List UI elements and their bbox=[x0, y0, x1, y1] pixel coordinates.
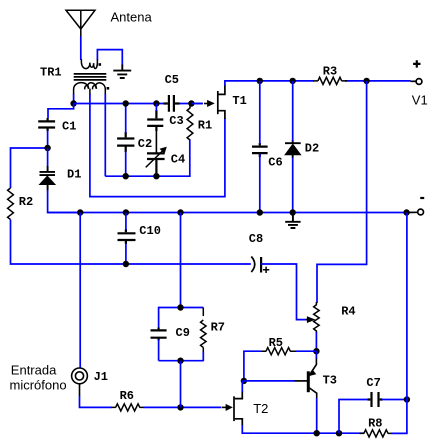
resistor R8 bbox=[360, 430, 393, 437]
transistor T2 (FET) bbox=[234, 391, 242, 426]
capacitor C7 bbox=[368, 392, 383, 407]
wire rail3 (ground rail) bbox=[48, 212, 407, 214]
wire TR1 tap1 down to T1 source line bbox=[90, 94, 225, 197]
junction dot rail2/C4 bbox=[153, 173, 159, 179]
capacitor C3 bbox=[147, 110, 163, 131]
TR1 polarity dot primary bbox=[99, 63, 102, 66]
T1 gate arrow bbox=[204, 101, 214, 107]
wire C9R7 branch (rail3 down to combo top) bbox=[180, 213, 182, 308]
svg-text:T3: T3 bbox=[323, 374, 337, 388]
svg-text:C10: C10 bbox=[139, 224, 161, 238]
svg-text:V1: V1 bbox=[412, 92, 428, 107]
wire C7 left leg bbox=[339, 400, 369, 434]
resistor R7 bbox=[201, 308, 207, 353]
junction dot rail1/C3 bbox=[153, 100, 159, 106]
junction dot rail3/D2/ground bbox=[290, 209, 296, 215]
junction dot rail3/C9R7 branch bbox=[177, 209, 183, 215]
wire C9R7 combo bottom rail bbox=[159, 360, 204, 362]
junction dot rail1 left / C1 branch bbox=[70, 100, 76, 106]
svg-text:R7: R7 bbox=[211, 320, 225, 334]
wire C2 top to rail1 bbox=[125, 104, 127, 134]
wire T1 gate bbox=[191, 103, 203, 105]
wire antenna to TR1 primary bbox=[80, 37, 82, 61]
wire TR1 secondary right lead down to rail2 bbox=[104, 94, 106, 176]
svg-text:R5: R5 bbox=[269, 336, 283, 350]
junction dot V+ rail / D2 bbox=[290, 78, 296, 84]
wire TR1 primary right to ground bbox=[97, 50, 122, 66]
ground (middle) bbox=[285, 213, 300, 229]
svg-text:C8: C8 bbox=[249, 232, 263, 246]
svg-text:D1: D1 bbox=[67, 167, 81, 181]
wire rail1 (tuned circuit top) bbox=[74, 103, 202, 105]
wire C7 right to right rail bbox=[382, 399, 407, 401]
potentiometer R4 bbox=[314, 302, 320, 333]
terminal - circle bbox=[407, 209, 424, 215]
junction dot rail2/C2 bbox=[123, 173, 129, 179]
TR1 polarity dot secondary bbox=[107, 87, 110, 90]
T2 gate arrow bbox=[222, 405, 232, 411]
svg-text:J1: J1 bbox=[94, 370, 108, 384]
svg-text:C7: C7 bbox=[366, 376, 380, 390]
svg-text:TR1: TR1 bbox=[40, 66, 62, 80]
diode D2 bbox=[285, 140, 301, 158]
wire C3 top to rail1 bbox=[155, 104, 157, 112]
svg-text:C1: C1 bbox=[62, 119, 76, 133]
wire C2 bottom to rail2 bbox=[125, 152, 127, 177]
wire rail1 step to C1 bbox=[48, 104, 74, 119]
junction dot R4/R5/T3 emitter bbox=[313, 348, 319, 354]
junction dot rail4/C10 bbox=[123, 261, 129, 267]
wire J1 bottom to R6 bbox=[80, 396, 113, 407]
plus sign bbox=[413, 60, 420, 67]
capacitor C6 bbox=[252, 143, 268, 157]
junction dot bottom rail/T3 bbox=[314, 430, 320, 436]
R4 wiper arrow bbox=[306, 317, 315, 323]
minus sign bbox=[420, 197, 424, 199]
svg-text:C6: C6 bbox=[268, 156, 282, 170]
capacitor C4 (variable) bbox=[146, 147, 167, 175]
junction dot mic line / C9R7 bbox=[177, 404, 183, 410]
junction dot combo bottom bbox=[177, 358, 183, 364]
svg-text:R6: R6 bbox=[120, 389, 134, 403]
wire C9R7 combo top rail bbox=[159, 307, 204, 309]
wire T2 drain up to node bbox=[242, 381, 244, 392]
wire C6 top bbox=[259, 81, 261, 144]
junction dot C7/right rail bbox=[404, 396, 410, 402]
wire rail2 (tuned circuit bottom) bbox=[105, 140, 190, 177]
svg-text:C2: C2 bbox=[138, 137, 152, 151]
svg-text:C9: C9 bbox=[176, 326, 190, 340]
wire D1 bottom to rail3 bbox=[48, 190, 81, 213]
wire C8 right to R4 wiper bbox=[261, 264, 307, 320]
junction dot rail3/J1 branch bbox=[77, 209, 83, 215]
wire T1 drain up to V+ rail bbox=[225, 81, 411, 86]
transformer TR1 bbox=[74, 59, 107, 94]
junction dot rail1/C2 bbox=[123, 100, 129, 106]
transistor T3 (PNP) bbox=[295, 358, 317, 399]
svg-text:R2: R2 bbox=[19, 195, 33, 209]
wire T3 collector down to bottom rail bbox=[316, 398, 318, 433]
terminal + circle bbox=[411, 79, 422, 85]
wire R7 bottom stub bbox=[202, 352, 204, 362]
junction dot rail3/C6 bbox=[257, 209, 263, 215]
svg-text:T2: T2 bbox=[253, 401, 268, 416]
svg-text:C3: C3 bbox=[169, 114, 183, 128]
svg-text:R4: R4 bbox=[341, 304, 355, 318]
wire R4 bottom to node R5/T3 bbox=[315, 332, 317, 351]
wire D2 top bbox=[292, 81, 294, 141]
wire C9 left leg bottom bbox=[158, 340, 160, 361]
connector J1 (microphone jack) bbox=[72, 368, 88, 397]
svg-text:R1: R1 bbox=[198, 119, 212, 133]
antenna bbox=[66, 10, 95, 37]
junction dot T2 drain/R5/T3 base bbox=[241, 378, 247, 384]
svg-text:micrófono: micrófono bbox=[10, 378, 67, 393]
svg-text:C4: C4 bbox=[171, 153, 185, 167]
wire C1 bottom to node D1 bbox=[47, 131, 49, 149]
wire C3 bottom to C4 top bbox=[155, 127, 157, 154]
capacitor C5 bbox=[164, 95, 180, 112]
resistor R1 bbox=[187, 104, 193, 141]
resistor R2 bbox=[8, 188, 14, 220]
capacitor C9 bbox=[151, 328, 167, 341]
junction dot bottom rail/C7 left bbox=[336, 430, 342, 436]
svg-text:R3: R3 bbox=[323, 65, 337, 79]
wire D2 bottom to rail3 bbox=[292, 158, 294, 213]
wire T3 base bbox=[244, 380, 295, 382]
wire node D1 left to R2 bbox=[11, 148, 48, 188]
svg-text:Antena: Antena bbox=[111, 10, 153, 25]
junction dot V+ rail / R4 feed bbox=[363, 78, 369, 84]
svg-text:T1: T1 bbox=[232, 94, 246, 108]
ground (top, antenna) bbox=[113, 65, 131, 79]
resistor R3 (break in rail) bbox=[314, 76, 345, 86]
wire TR1 secondary left lead to rail1 bbox=[73, 94, 75, 104]
junction dot rail3 right end bbox=[403, 209, 409, 215]
svg-text:Entrada: Entrada bbox=[11, 362, 57, 377]
svg-text:C5: C5 bbox=[165, 73, 179, 87]
wire V+ feed down to R4 top bbox=[317, 81, 367, 303]
transistor T1 (FET) bbox=[218, 85, 225, 119]
capacitor C10 bbox=[118, 229, 136, 244]
junction dot C1/D1 node bbox=[44, 145, 50, 151]
wire T3 emitter up to node bbox=[315, 351, 317, 358]
wire R6 right to T2 gate bbox=[144, 406, 222, 408]
wire R8 right up right rail to minus bbox=[392, 213, 407, 434]
wire C9 left leg top bbox=[158, 307, 160, 329]
junction dot V+ rail / C6 bbox=[257, 78, 263, 84]
junction dot rail1/R1/T1 gate bbox=[188, 100, 194, 106]
svg-text:D2: D2 bbox=[305, 141, 319, 155]
wire C6 bottom to rail3 bbox=[259, 154, 261, 213]
resistor R6 bbox=[112, 404, 145, 411]
wire combo bottom to mic line bbox=[180, 361, 182, 408]
wire T2 source down to bottom rail bbox=[242, 425, 364, 433]
junction dot combo top bbox=[177, 304, 183, 310]
svg-text:R8: R8 bbox=[368, 417, 382, 431]
resistor R5 bbox=[261, 348, 297, 355]
wire J1 branch down from rail3 bbox=[79, 213, 81, 369]
wire R5 right to node bbox=[296, 350, 317, 352]
junction dot rail3/C10 bbox=[123, 209, 129, 215]
capacitor C2 bbox=[117, 132, 134, 152]
capacitor C1 bbox=[38, 118, 55, 131]
wire R2 bottom to rail4 bbox=[11, 220, 251, 265]
wire R5 left down to T2 drain node bbox=[244, 351, 261, 381]
capacitor C8 (electrolytic) bbox=[251, 257, 269, 274]
wire C10 top to rail3 bbox=[125, 213, 127, 231]
diode D1 (varicap) bbox=[40, 166, 56, 191]
wire D1 top lead bbox=[47, 148, 49, 167]
wire C10 bottom to rail4 bbox=[125, 244, 127, 265]
